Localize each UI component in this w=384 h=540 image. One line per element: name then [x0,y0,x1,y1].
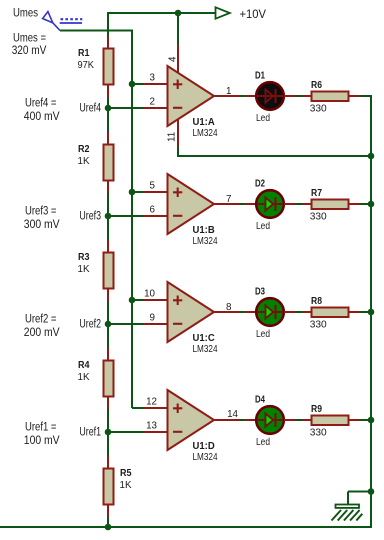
wire left rail top vertical into R1 [107,12,109,37]
wire pin3 green [132,83,144,85]
probe symbol [43,12,53,23]
wire output to LED [240,419,246,421]
op-amp U1:A [168,66,215,126]
svg-text:D3: D3 [255,286,265,298]
svg-text:11: 11 [167,132,178,142]
svg-text:1K: 1K [78,155,90,167]
svg-text:7: 7 [226,194,231,205]
wire R8 to right rail [359,311,372,313]
node bottom of chain [105,524,112,531]
pin 11 stub [177,119,179,148]
node pin11 rail junction [368,153,375,160]
node Uref3 [105,213,112,220]
svg-text:9: 9 [150,313,155,324]
svg-text:1K: 1K [78,371,90,383]
svg-text:320 mV: 320 mV [12,43,47,57]
svg-text:4: 4 [168,56,179,62]
wire R9 to right rail [359,419,372,421]
wire R6 to right rail [359,95,372,97]
svg-text:LM324: LM324 [193,127,218,139]
svg-text:R2: R2 [78,143,90,155]
node pin5 junction [129,189,136,196]
svg-text:Led: Led [256,328,270,340]
pin 4 stub [177,45,179,74]
svg-text:Uref4 =: Uref4 = [25,96,57,110]
node Uref1 [105,429,112,436]
wire output to LED [240,203,246,205]
wire probe to Umes rail [60,30,133,32]
resistor R2 [107,132,109,144]
wire pin4 vertical green [177,13,179,45]
svg-text:D2: D2 [255,178,265,190]
svg-text:R8: R8 [311,295,322,307]
pin 8 output stub [214,311,240,313]
resistor R3 [107,240,109,252]
svg-text:5: 5 [150,181,156,192]
svg-text:8: 8 [226,302,232,313]
pin 3 stub [144,83,168,85]
svg-text:330: 330 [310,427,327,439]
op-amp U1:D [168,390,215,450]
node R7 rail junction [368,201,375,208]
wire LED to R7 [295,203,303,205]
svg-text:R1: R1 [78,47,90,59]
resistor R9 [303,419,312,421]
wire LED to R8 [295,311,303,313]
svg-text:200 mV: 200 mV [24,325,60,339]
bottom ground wire [0,526,371,528]
svg-text:330: 330 [310,103,327,115]
pin 1 output stub [214,95,240,97]
op-amp U1:B [168,174,215,234]
node Uref4 [105,105,112,112]
pin 13 stub [144,431,168,433]
node ground junction [368,488,375,495]
pin 7 output stub [214,203,240,205]
svg-text:Uref2: Uref2 [79,317,101,331]
wire pin13 green [108,431,144,433]
svg-text:+10V: +10V [240,7,267,21]
node Uref2 [105,321,112,328]
wire pin6 green [108,215,144,217]
svg-text:Uref2 =: Uref2 = [25,312,57,326]
wire R3 to Uref2 node [107,301,109,348]
svg-text:6: 6 [150,205,156,216]
op-amp U1:C [168,282,215,342]
svg-text:330: 330 [310,319,327,331]
resistor R4 [107,348,109,360]
resistor R1 [107,37,109,49]
pin 6 stub [144,215,168,217]
svg-text:R7: R7 [311,187,322,199]
wire Umes rail corner to pin12 [132,407,144,409]
svg-text:Umes: Umes [13,6,38,20]
wire R2 to Uref3 node [107,193,109,240]
wire pin2 green [108,107,144,109]
svg-text:R6: R6 [311,79,322,91]
svg-text:D1: D1 [255,70,265,82]
svg-text:Uref4: Uref4 [79,101,101,115]
pin 2 stub [144,107,168,109]
svg-text:Led: Led [256,220,270,232]
svg-text:100 mV: 100 mV [24,433,60,447]
svg-text:14: 14 [227,409,238,420]
resistor R8 [303,311,312,313]
node R8 rail junction [368,309,375,316]
pin 14 output stub [214,419,240,421]
svg-text:R3: R3 [78,251,90,263]
node junction pin4 branch [175,10,182,17]
svg-text:3: 3 [150,73,156,84]
svg-text:1K: 1K [120,479,132,491]
power +10V symbol [216,7,230,18]
svg-text:Uref3 =: Uref3 = [25,204,57,218]
node R9 rail junction [368,417,375,424]
LED D3 [245,311,257,313]
pin 10 stub [144,299,168,301]
wire R1 to Uref4 node [107,98,109,132]
svg-text:400 mV: 400 mV [24,109,60,123]
svg-text:LM324: LM324 [193,235,218,247]
svg-text:LM324: LM324 [193,343,218,355]
wire pin10 green [132,299,144,301]
svg-text:10: 10 [144,289,155,300]
svg-text:R4: R4 [78,359,90,371]
svg-text:330: 330 [310,211,327,223]
svg-text:Uref3: Uref3 [79,209,101,223]
pin 5 stub [144,191,168,193]
resistor R6 [303,95,312,97]
pin 12 stub [144,407,168,409]
svg-text:1: 1 [226,86,231,97]
wire LED to R9 [295,419,303,421]
wire pin5 green [132,191,144,193]
node pin3 junction [129,81,136,88]
svg-text:12: 12 [146,397,157,408]
svg-text:Uref1 =: Uref1 = [25,420,57,434]
wire R4 to Uref1 node [107,409,109,456]
ground symbol [348,491,371,493]
svg-text:Uref1: Uref1 [79,425,101,439]
wire R7 to right rail [359,203,372,205]
node pin10 junction [129,297,136,304]
resistor R5 [107,456,109,468]
wire LED to R6 [295,95,303,97]
wire pin9 green [108,323,144,325]
LED D4 [245,419,257,421]
svg-text:D4: D4 [255,394,265,406]
wire pin11 to ground rail [178,147,371,157]
svg-text:300 mV: 300 mV [24,217,60,231]
svg-text:R5: R5 [120,467,132,479]
wire R5 to bottom rail [107,517,109,527]
wire output to LED [240,311,246,313]
svg-text:Led: Led [256,436,270,448]
svg-text:LM324: LM324 [193,451,218,463]
wire output to LED [240,95,246,97]
svg-text:97K: 97K [78,59,95,71]
svg-text:2: 2 [150,97,155,108]
svg-text:13: 13 [146,421,157,432]
svg-text:Led: Led [256,112,270,124]
wire top +10V rail horizontal [107,12,216,14]
svg-text:R9: R9 [311,403,322,415]
LED D2 [245,203,257,205]
pin 9 stub [144,323,168,325]
resistor R7 [303,203,312,205]
right ground rail vertical [370,96,372,528]
svg-text:1K: 1K [78,263,90,275]
LED D1 [245,95,257,97]
wire Umes rail vertical [131,31,133,409]
